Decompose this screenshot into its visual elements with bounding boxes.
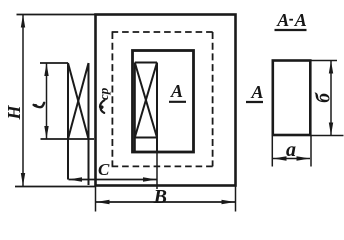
- B right arrow: [222, 200, 236, 204]
- C right arrow: [143, 177, 157, 181]
- dimension l: extension lines: [40, 62, 68, 64]
- l bottom arrow: [44, 126, 48, 139]
- underline of A-A: [275, 29, 307, 31]
- label l (rotated): [34, 103, 45, 107]
- winding outer section (left coil): [68, 63, 89, 185]
- section A-A body rectangle: [273, 61, 311, 136]
- mean magnetic path lcp (dashed) bottom edge: [112, 165, 214, 167]
- l top arrow: [44, 63, 48, 76]
- B left arrow: [96, 200, 110, 204]
- a right arrow: [297, 156, 311, 160]
- svg-text:А: А: [276, 10, 289, 30]
- dimension H: extension lines: [17, 14, 96, 16]
- mean magnetic path lcp (dashed) left edge: [111, 32, 113, 166]
- b top arrow: [329, 61, 333, 74]
- svg-text:а: а: [286, 139, 296, 161]
- section title A-A: hyphen: [289, 19, 293, 21]
- svg-text:ср: ср: [96, 87, 111, 100]
- dimension a: extension lines: [271, 135, 273, 167]
- arrowheads: [21, 15, 333, 205]
- svg-text:А: А: [170, 81, 183, 101]
- dimension B: extension lines: [95, 186, 97, 212]
- mean magnetic path lcp (dashed) right edge: [212, 32, 214, 166]
- svg-text:H: H: [4, 105, 24, 121]
- dimension a: dimension line: [273, 158, 310, 160]
- svg-text:А: А: [251, 82, 264, 102]
- underline of A near section: [246, 101, 263, 103]
- a left arrow: [273, 156, 287, 160]
- b bottom arrow: [329, 123, 333, 136]
- core window opening: [133, 51, 194, 153]
- C left arrow: [69, 177, 83, 181]
- dimension H: dimension line: [22, 15, 24, 187]
- underline of A in window: [169, 101, 186, 103]
- label lcp (rotated): [100, 100, 104, 113]
- svg-text:б: б: [314, 92, 335, 103]
- mean magnetic path lcp (dashed) top edge: [112, 31, 214, 33]
- dimension B: dimension line: [96, 201, 235, 203]
- svg-text:В: В: [153, 186, 167, 208]
- dimension C: dimension line: [69, 179, 157, 181]
- H bottom arrow: [21, 173, 25, 186]
- svg-text:А: А: [294, 10, 307, 30]
- core outer outline: [96, 15, 236, 186]
- extension line from coil right edge for C: [156, 151, 158, 189]
- H top arrow: [21, 15, 25, 28]
- dimension b: dimension line: [330, 61, 332, 136]
- svg-text:С: С: [98, 160, 110, 179]
- winding inner section (coil in window): [135, 63, 157, 152]
- dimension b: extension lines: [310, 60, 337, 62]
- dimension l: dimension line: [46, 63, 48, 139]
